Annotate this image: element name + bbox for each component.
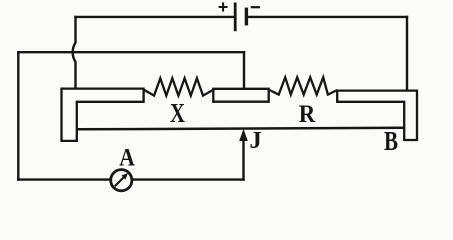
svg-text:A: A — [119, 143, 135, 172]
svg-text:J: J — [249, 127, 261, 154]
svg-text:R: R — [299, 99, 316, 128]
svg-text:B: B — [384, 126, 398, 156]
svg-text:X: X — [170, 98, 185, 128]
